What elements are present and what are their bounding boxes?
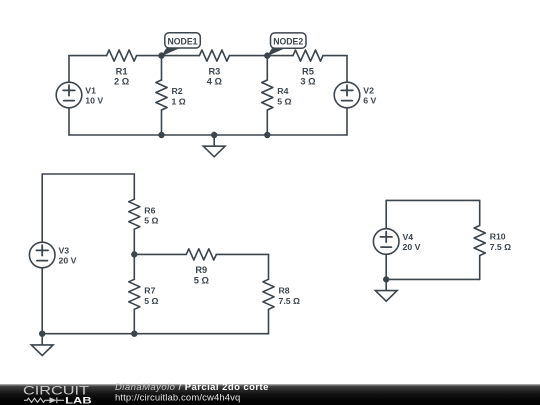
svg-text:5 Ω: 5 Ω (194, 275, 210, 285)
wire V2 top rail (346, 56, 348, 83)
wire top-left: V1 top to R1 (69, 55, 107, 57)
resistor R2 (156, 80, 186, 110)
resistor R8 (263, 279, 300, 309)
wire R5 to V2 top (323, 55, 347, 57)
svg-text:R6: R6 (144, 205, 155, 215)
resistor R1 (107, 50, 137, 87)
svg-text:R5: R5 (302, 66, 314, 76)
wire middle circuit bottom (42, 333, 268, 335)
resistor R7 (129, 279, 159, 309)
wire top to R10 (479, 200, 481, 225)
voltage source V1 (56, 82, 103, 108)
wire R8 to bottom rail (268, 309, 270, 333)
svg-text:5 Ω: 5 Ω (144, 216, 158, 226)
wire R3 to node B (229, 55, 267, 57)
wire V1 top rail (68, 56, 70, 83)
node label NODE2 (267, 33, 306, 56)
svg-text:2 Ω: 2 Ω (114, 77, 130, 87)
svg-text:1 Ω: 1 Ω (172, 97, 186, 107)
wire R6 to middle node (133, 229, 135, 254)
svg-text:7.5 Ω: 7.5 Ω (279, 296, 300, 306)
junction node A (159, 53, 164, 58)
svg-text:R10: R10 (490, 232, 506, 242)
svg-text:V4: V4 (403, 232, 414, 242)
wire R2 to bottom rail (161, 110, 163, 135)
CircuitLab logo resistor-diode squiggle (24, 397, 64, 403)
svg-text:R8: R8 (279, 286, 290, 296)
svg-text:R4: R4 (277, 86, 288, 96)
wire R10 to bottom rail (479, 256, 481, 280)
wire R4 to bottom rail (266, 110, 268, 135)
wire R1 to node A (137, 55, 162, 57)
ground of middle circuit (31, 334, 53, 356)
wire node B to R5 (267, 55, 293, 57)
svg-text:NODE1: NODE1 (168, 36, 198, 46)
resistor R5 (293, 50, 323, 87)
svg-text:5 Ω: 5 Ω (144, 296, 158, 306)
wire V1 bottom rail (68, 108, 70, 135)
junction middle node (132, 252, 137, 257)
svg-text:10 V: 10 V (85, 96, 103, 106)
wire R9 to right rail (216, 253, 268, 255)
svg-text:7.5 Ω: 7.5 Ω (490, 242, 511, 252)
wire node A down to R2 (161, 56, 163, 80)
svg-text:http://circuitlab.com/cw4h4vq: http://circuitlab.com/cw4h4vq (115, 392, 240, 403)
wire node B down to R4 (266, 56, 268, 80)
resistor R9 (186, 249, 216, 286)
junction V4 ground (384, 277, 389, 282)
ground of right circuit (375, 279, 397, 301)
svg-text:6 V: 6 V (363, 96, 376, 106)
svg-text:R7: R7 (144, 286, 155, 296)
wire node A to R3 (162, 55, 200, 57)
svg-text:LAB: LAB (65, 395, 92, 405)
svg-text:R9: R9 (195, 265, 207, 275)
svg-text:V1: V1 (85, 86, 96, 96)
junction ground top (212, 133, 217, 138)
junction R4 bottom (265, 133, 270, 138)
wire middle node to R9 (134, 253, 186, 255)
wire middle circuit top (42, 173, 134, 175)
svg-text:R2: R2 (172, 86, 183, 96)
svg-text:5 Ω: 5 Ω (277, 97, 291, 107)
svg-text:20 V: 20 V (59, 256, 77, 266)
junction node B (265, 53, 270, 58)
svg-text:4 Ω: 4 Ω (207, 77, 223, 87)
svg-text:R1: R1 (116, 66, 128, 76)
wire V2 bottom rail (346, 108, 348, 135)
svg-text:3 Ω: 3 Ω (300, 77, 316, 87)
junction R2 bottom (159, 133, 164, 138)
svg-text:V3: V3 (59, 246, 70, 256)
voltage source V2 (334, 82, 376, 108)
resistor R10 (474, 226, 511, 256)
resistor R3 (199, 50, 229, 87)
ground of top circuit (203, 135, 225, 157)
voltage source V3 (29, 242, 76, 268)
wire middle node down to R7 (133, 254, 135, 279)
wire V3 bottom rail (41, 268, 43, 334)
resistor R4 (262, 80, 292, 110)
svg-text:V2: V2 (363, 86, 374, 96)
junction V3 ground (40, 331, 45, 336)
junction R7 bottom (132, 331, 137, 336)
wire right circuit top (386, 199, 480, 201)
svg-text:R3: R3 (208, 66, 220, 76)
voltage source V4 (373, 229, 420, 255)
wire V4 bottom rail (385, 254, 387, 279)
wire bottom rail of top circuit (69, 134, 347, 136)
wire V3 top rail (41, 174, 43, 242)
svg-text:20 V: 20 V (403, 242, 421, 252)
node label NODE1 (161, 33, 200, 57)
footer bar (0, 384, 540, 405)
wire R7 to bottom rail (133, 309, 135, 333)
wire top to R6 (133, 174, 135, 199)
resistor R6 (129, 199, 159, 229)
wire V4 top rail (385, 200, 387, 228)
wire right circuit bottom (386, 278, 480, 280)
wire right rail to R8 (268, 254, 270, 279)
svg-text:NODE2: NODE2 (273, 37, 303, 47)
